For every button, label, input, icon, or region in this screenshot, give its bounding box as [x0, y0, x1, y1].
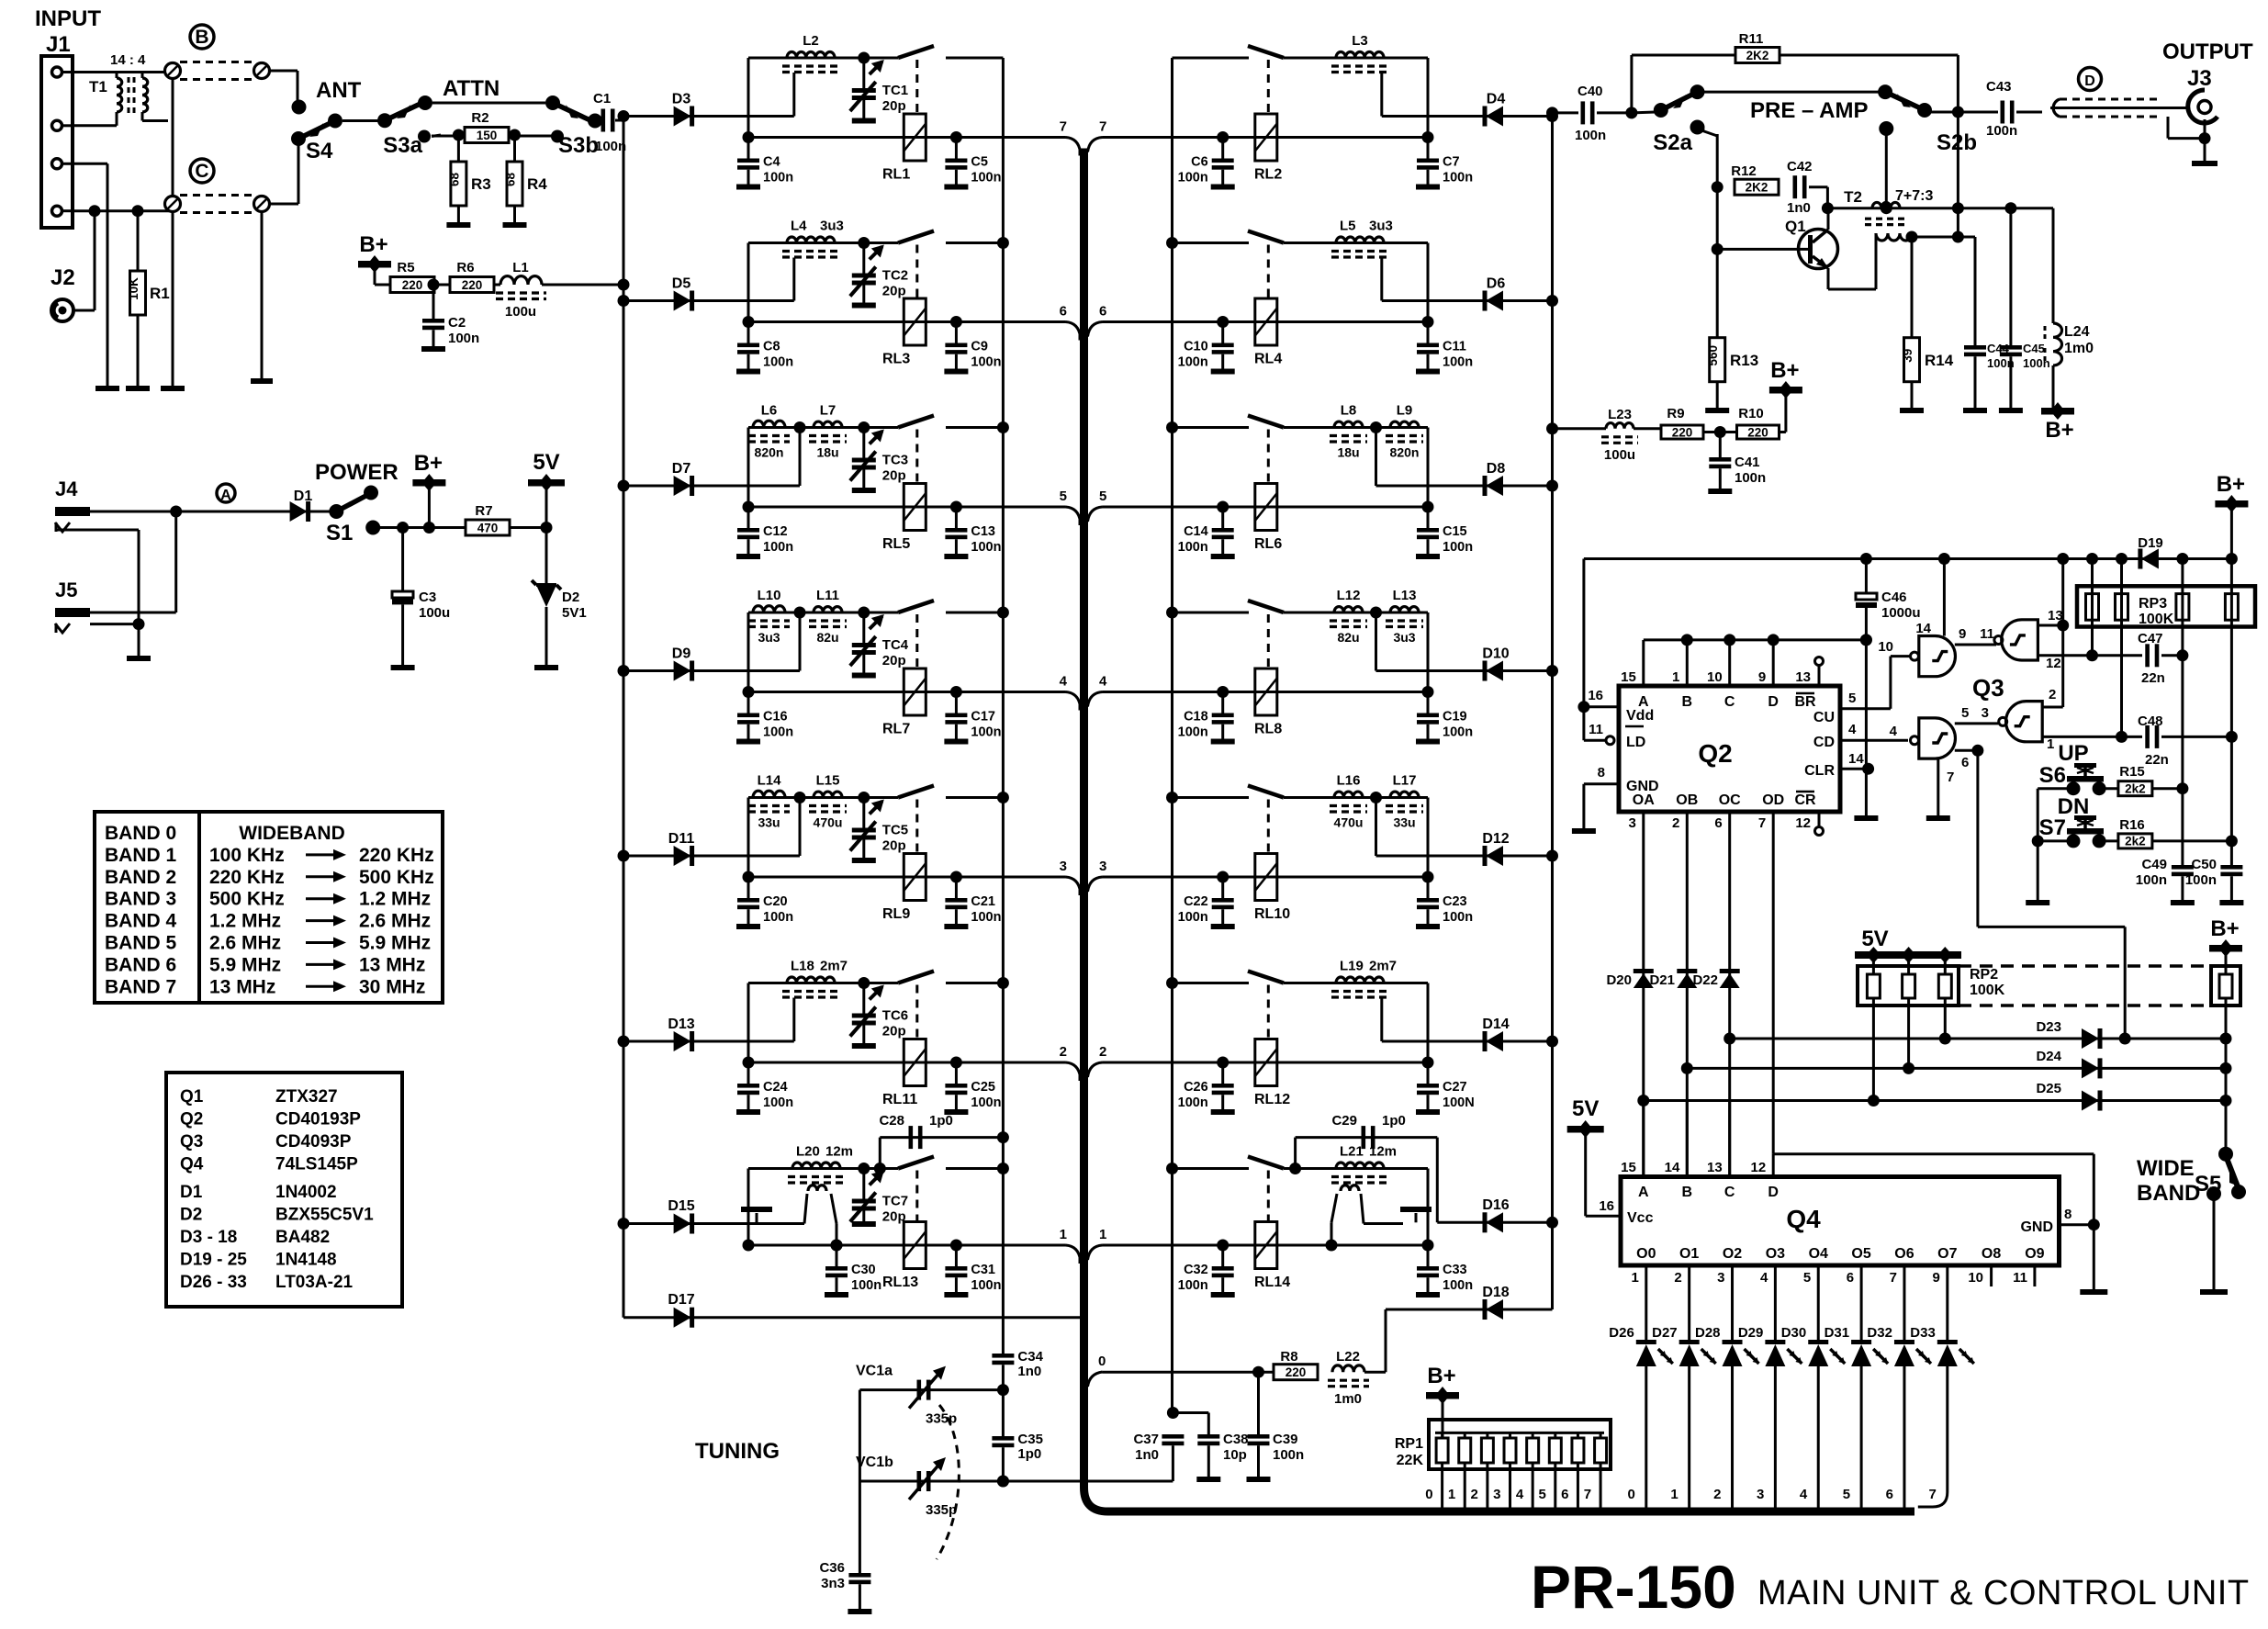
svg-text:C18: C18: [1184, 710, 1208, 725]
svg-text:TC6: TC6: [882, 1008, 908, 1024]
svg-text:820n: 820n: [1390, 445, 1420, 460]
svg-text:C28: C28: [879, 1113, 904, 1129]
svg-text:C46: C46: [1881, 590, 1907, 605]
svg-text:C15: C15: [1443, 524, 1467, 539]
svg-text:2m7: 2m7: [820, 959, 848, 974]
svg-text:LT03A-21: LT03A-21: [275, 1273, 354, 1292]
svg-text:S4: S4: [306, 139, 333, 163]
svg-text:10: 10: [1968, 1270, 1983, 1286]
svg-text:2k2: 2k2: [2125, 782, 2146, 796]
svg-text:CD4093P: CD4093P: [275, 1132, 352, 1152]
svg-text:T2: T2: [1844, 188, 1862, 206]
svg-text:C5: C5: [971, 155, 988, 170]
svg-text:5: 5: [1843, 1487, 1850, 1502]
svg-text:L10: L10: [758, 588, 781, 603]
svg-text:7: 7: [1584, 1487, 1591, 1502]
svg-text:R13: R13: [1730, 352, 1758, 369]
svg-text:D31: D31: [1825, 1325, 1850, 1341]
svg-text:C45: C45: [2023, 342, 2045, 355]
svg-text:RL13: RL13: [882, 1275, 918, 1290]
svg-text:BAND 4: BAND 4: [105, 911, 176, 932]
svg-text:OD: OD: [1762, 792, 1784, 808]
svg-text:O9: O9: [2025, 1246, 2044, 1262]
svg-text:2: 2: [1471, 1487, 1478, 1502]
svg-text:B: B: [195, 27, 208, 48]
svg-text:D28: D28: [1695, 1325, 1721, 1341]
svg-text:470u: 470u: [814, 815, 843, 830]
svg-text:D27: D27: [1652, 1325, 1678, 1341]
svg-text:4: 4: [1848, 722, 1857, 737]
svg-text:1m0: 1m0: [1334, 1391, 1362, 1407]
svg-text:1m0: 1m0: [2064, 341, 2094, 356]
svg-text:D6: D6: [1487, 276, 1506, 292]
svg-text:100n: 100n: [1178, 171, 1208, 185]
svg-text:7+7:3: 7+7:3: [1895, 188, 1933, 204]
svg-text:WIDEBAND: WIDEBAND: [239, 823, 345, 844]
svg-text:12: 12: [1795, 815, 1811, 831]
svg-text:12m: 12m: [825, 1144, 853, 1160]
svg-text:100n: 100n: [971, 540, 1001, 555]
svg-text:LD: LD: [1626, 735, 1645, 750]
svg-text:RL7: RL7: [882, 722, 910, 737]
svg-text:S3b: S3b: [558, 133, 599, 158]
svg-text:100 KHz: 100 KHz: [209, 845, 285, 866]
svg-text:Q3: Q3: [1972, 674, 2004, 702]
svg-text:Vdd: Vdd: [1626, 708, 1654, 724]
svg-text:100n: 100n: [595, 139, 626, 154]
svg-text:S1: S1: [326, 521, 353, 545]
svg-text:R14: R14: [1925, 352, 1954, 369]
svg-text:6: 6: [1099, 304, 1106, 320]
svg-text:5.9 MHz: 5.9 MHz: [359, 933, 431, 954]
svg-text:L1: L1: [512, 260, 529, 275]
svg-text:OA: OA: [1633, 792, 1655, 808]
svg-text:O2: O2: [1723, 1246, 1742, 1262]
svg-text:100n: 100n: [763, 910, 793, 925]
svg-text:1: 1: [1060, 1227, 1067, 1242]
svg-text:1n0: 1n0: [1787, 200, 1811, 216]
svg-text:2: 2: [1060, 1044, 1067, 1060]
svg-text:C34: C34: [1017, 1349, 1043, 1365]
svg-text:20p: 20p: [882, 98, 906, 114]
svg-text:2: 2: [1674, 1270, 1681, 1286]
svg-text:D5: D5: [672, 276, 691, 292]
svg-text:TUNING: TUNING: [695, 1439, 780, 1464]
svg-text:100n: 100n: [851, 1278, 881, 1293]
svg-text:2: 2: [2049, 687, 2056, 702]
svg-text:J2: J2: [51, 265, 75, 290]
svg-text:BAND: BAND: [2137, 1181, 2200, 1206]
svg-text:R8: R8: [1280, 1349, 1297, 1365]
svg-text:D14: D14: [1482, 1017, 1509, 1032]
svg-text:VC1a: VC1a: [856, 1364, 893, 1379]
svg-text:14: 14: [1665, 1160, 1680, 1175]
svg-text:C: C: [1724, 1185, 1735, 1200]
svg-text:14 : 4: 14 : 4: [110, 52, 146, 68]
svg-text:2.6 MHz: 2.6 MHz: [359, 911, 431, 932]
svg-text:100n: 100n: [1443, 725, 1473, 740]
svg-text:D13: D13: [668, 1017, 694, 1032]
svg-text:J3: J3: [2187, 66, 2212, 91]
svg-text:2K2: 2K2: [1746, 181, 1768, 195]
svg-text:BZX55C5V1: BZX55C5V1: [275, 1206, 374, 1225]
svg-text:10p: 10p: [1223, 1447, 1247, 1463]
svg-text:100n: 100n: [1178, 540, 1208, 555]
svg-text:100n: 100n: [1443, 910, 1473, 925]
svg-text:POWER: POWER: [315, 460, 399, 485]
svg-text:C31: C31: [971, 1263, 995, 1277]
svg-text:RP1: RP1: [1395, 1436, 1423, 1452]
svg-text:RP2: RP2: [1970, 967, 1998, 983]
svg-text:9: 9: [1959, 626, 1966, 642]
svg-text:J5: J5: [55, 579, 77, 601]
svg-text:5V1: 5V1: [562, 605, 587, 621]
svg-text:C3: C3: [419, 590, 436, 605]
svg-text:B+: B+: [1770, 358, 1799, 383]
svg-text:3u3: 3u3: [1393, 630, 1415, 645]
svg-text:100u: 100u: [505, 304, 536, 320]
svg-text:BAND 0: BAND 0: [105, 823, 176, 844]
svg-text:1p0: 1p0: [1382, 1113, 1406, 1129]
svg-text:4: 4: [1060, 674, 1068, 690]
svg-text:C27: C27: [1443, 1080, 1467, 1095]
svg-text:D4: D4: [1487, 92, 1506, 107]
svg-text:C7: C7: [1443, 155, 1460, 170]
svg-text:13: 13: [1707, 1160, 1723, 1175]
svg-text:100n: 100n: [1443, 355, 1473, 370]
svg-text:18u: 18u: [816, 445, 838, 460]
svg-text:7: 7: [1890, 1270, 1897, 1286]
svg-text:S5: S5: [2195, 1172, 2221, 1196]
svg-text:220 KHz: 220 KHz: [209, 867, 285, 888]
svg-text:PR-150: PR-150: [1531, 1553, 1736, 1621]
svg-text:100K: 100K: [2139, 612, 2174, 627]
svg-text:100n: 100n: [763, 171, 793, 185]
svg-text:TC7: TC7: [882, 1194, 908, 1209]
svg-text:D15: D15: [668, 1198, 694, 1214]
svg-text:L6: L6: [761, 403, 778, 419]
svg-text:33u: 33u: [1393, 815, 1415, 830]
svg-text:6: 6: [1961, 755, 1969, 770]
svg-text:Q4: Q4: [180, 1155, 204, 1174]
svg-text:100n: 100n: [1575, 128, 1606, 143]
svg-text:7: 7: [1947, 770, 1954, 785]
svg-text:D10: D10: [1482, 646, 1509, 662]
svg-text:7: 7: [1060, 119, 1067, 135]
svg-text:S3a: S3a: [383, 133, 422, 158]
svg-text:3u3: 3u3: [820, 219, 844, 234]
svg-text:12: 12: [1751, 1160, 1767, 1175]
svg-text:100n: 100n: [1178, 910, 1208, 925]
svg-text:D7: D7: [672, 461, 691, 477]
svg-text:7: 7: [1758, 815, 1766, 831]
svg-text:RL10: RL10: [1254, 906, 1290, 922]
svg-text:L22: L22: [1336, 1349, 1360, 1365]
svg-text:BAND 2: BAND 2: [105, 867, 176, 888]
svg-text:D1: D1: [294, 489, 313, 504]
svg-text:Q4: Q4: [1786, 1205, 1821, 1233]
svg-text:5.9 MHz: 5.9 MHz: [209, 954, 281, 975]
svg-text:11: 11: [2013, 1270, 2027, 1286]
svg-text:RL1: RL1: [882, 167, 910, 183]
svg-text:335p: 335p: [926, 1502, 957, 1518]
svg-text:1000u: 1000u: [1881, 605, 1921, 621]
svg-text:5: 5: [1538, 1487, 1545, 1502]
svg-text:10: 10: [1878, 639, 1893, 655]
svg-text:470: 470: [477, 521, 499, 534]
svg-text:2K2: 2K2: [1746, 49, 1769, 62]
svg-text:A: A: [220, 488, 231, 503]
svg-text:7: 7: [1099, 119, 1106, 135]
svg-text:C17: C17: [971, 710, 995, 725]
svg-text:D3: D3: [672, 92, 691, 107]
svg-text:D9: D9: [672, 646, 691, 662]
svg-text:82u: 82u: [1337, 630, 1359, 645]
svg-text:220: 220: [1286, 1365, 1307, 1379]
svg-text:O6: O6: [1894, 1246, 1914, 1262]
svg-text:CLR: CLR: [1804, 763, 1835, 779]
svg-text:J1: J1: [46, 32, 71, 57]
svg-text:100n: 100n: [763, 355, 793, 370]
svg-text:RL14: RL14: [1254, 1275, 1290, 1290]
svg-text:L20: L20: [796, 1144, 820, 1160]
svg-text:L4: L4: [791, 219, 807, 234]
svg-text:100n: 100n: [1178, 355, 1208, 370]
svg-text:100u: 100u: [1604, 447, 1635, 463]
svg-text:C37: C37: [1133, 1432, 1159, 1447]
svg-text:BAND 1: BAND 1: [105, 845, 176, 866]
svg-text:1n0: 1n0: [1017, 1364, 1041, 1379]
svg-text:MAIN UNIT & CONTROL UNIT: MAIN UNIT & CONTROL UNIT: [1757, 1574, 2250, 1612]
svg-text:C: C: [195, 161, 208, 182]
svg-text:6: 6: [1886, 1487, 1893, 1502]
svg-text:O3: O3: [1766, 1246, 1785, 1262]
svg-text:C38: C38: [1223, 1432, 1249, 1447]
svg-text:RL5: RL5: [882, 536, 910, 552]
svg-text:D11: D11: [668, 831, 695, 847]
svg-text:O1: O1: [1679, 1246, 1699, 1262]
svg-text:2: 2: [1672, 815, 1679, 831]
svg-text:2k2: 2k2: [2125, 835, 2146, 848]
svg-text:C48: C48: [2138, 713, 2163, 729]
svg-text:220 KHz: 220 KHz: [359, 845, 434, 866]
svg-text:D18: D18: [1482, 1285, 1509, 1300]
svg-text:220: 220: [1747, 425, 1768, 439]
svg-text:5: 5: [1099, 489, 1106, 504]
svg-text:C42: C42: [1787, 159, 1813, 174]
svg-text:33u: 33u: [758, 815, 780, 830]
svg-text:2m7: 2m7: [1369, 959, 1397, 974]
svg-text:B+: B+: [2210, 916, 2239, 941]
svg-text:C26: C26: [1184, 1080, 1208, 1095]
svg-text:3: 3: [1982, 705, 1989, 721]
svg-text:20p: 20p: [882, 284, 906, 299]
svg-text:C10: C10: [1184, 340, 1208, 354]
svg-text:D24: D24: [2036, 1049, 2061, 1064]
svg-text:D22: D22: [1692, 972, 1718, 988]
svg-text:L19: L19: [1340, 959, 1364, 974]
svg-text:WIDE: WIDE: [2137, 1156, 2195, 1181]
svg-text:100n: 100n: [763, 1095, 793, 1110]
svg-text:RL6: RL6: [1254, 536, 1282, 552]
svg-text:BAND 5: BAND 5: [105, 933, 176, 954]
svg-text:L18: L18: [791, 959, 814, 974]
svg-text:11: 11: [1980, 626, 1994, 642]
svg-text:ANT: ANT: [316, 78, 362, 103]
svg-text:22n: 22n: [2145, 752, 2169, 768]
svg-text:D: D: [2084, 73, 2095, 89]
svg-text:2: 2: [1099, 1044, 1106, 1060]
svg-text:D: D: [1768, 1185, 1779, 1200]
svg-text:L12: L12: [1337, 588, 1361, 603]
svg-text:18u: 18u: [1337, 445, 1359, 460]
svg-text:L9: L9: [1397, 403, 1413, 419]
svg-text:11: 11: [1589, 722, 1603, 737]
svg-text:5: 5: [1848, 691, 1856, 706]
svg-text:PRE – AMP: PRE – AMP: [1750, 98, 1868, 123]
svg-text:100n: 100n: [1178, 725, 1208, 740]
svg-text:D29: D29: [1738, 1325, 1764, 1341]
svg-text:L2: L2: [803, 33, 819, 49]
svg-text:D32: D32: [1867, 1325, 1892, 1341]
svg-text:82u: 82u: [816, 630, 838, 645]
svg-text:UP: UP: [2058, 741, 2088, 766]
svg-text:100n: 100n: [448, 331, 479, 346]
svg-text:CD40193P: CD40193P: [275, 1110, 361, 1129]
svg-text:D26: D26: [1609, 1325, 1634, 1341]
svg-text:D17: D17: [668, 1292, 694, 1308]
svg-text:B+: B+: [2045, 418, 2073, 443]
svg-text:30 MHz: 30 MHz: [359, 976, 425, 997]
svg-text:15: 15: [1621, 669, 1636, 685]
svg-text:1N4148: 1N4148: [275, 1251, 337, 1270]
svg-text:22K: 22K: [1397, 1453, 1424, 1468]
svg-text:C14: C14: [1184, 524, 1208, 539]
svg-text:5: 5: [1060, 489, 1067, 504]
svg-text:L14: L14: [758, 773, 782, 789]
svg-text:R2: R2: [471, 110, 488, 126]
svg-text:R9: R9: [1667, 406, 1684, 421]
svg-text:16: 16: [1599, 1198, 1614, 1214]
svg-text:J4: J4: [55, 477, 78, 500]
svg-text:B+: B+: [359, 232, 387, 257]
svg-text:L17: L17: [1393, 773, 1417, 789]
svg-text:14: 14: [1848, 751, 1864, 767]
svg-text:T1: T1: [89, 78, 107, 95]
svg-text:TC3: TC3: [882, 453, 908, 468]
svg-text:C9: C9: [971, 340, 988, 354]
svg-text:3: 3: [1099, 859, 1106, 874]
svg-text:335p: 335p: [926, 1411, 957, 1427]
svg-text:D19: D19: [2138, 535, 2163, 551]
svg-text:Q1: Q1: [180, 1087, 204, 1107]
svg-text:1p0: 1p0: [1017, 1446, 1041, 1462]
svg-text:C: C: [1724, 694, 1735, 710]
svg-text:100n: 100n: [1273, 1447, 1304, 1463]
svg-text:Q2: Q2: [1698, 739, 1732, 768]
svg-text:100u: 100u: [419, 605, 450, 621]
svg-text:R1: R1: [150, 285, 170, 302]
svg-text:D21: D21: [1649, 972, 1675, 988]
svg-text:RL9: RL9: [882, 906, 910, 922]
svg-text:D19 - 25: D19 - 25: [180, 1251, 247, 1270]
svg-text:L23: L23: [1608, 407, 1632, 422]
svg-text:20p: 20p: [882, 468, 906, 484]
svg-text:TC2: TC2: [882, 268, 908, 284]
svg-text:13: 13: [1795, 669, 1811, 685]
svg-text:L21: L21: [1340, 1144, 1364, 1160]
svg-text:1: 1: [1670, 1487, 1678, 1502]
svg-text:D30: D30: [1781, 1325, 1807, 1341]
svg-text:22n: 22n: [2141, 670, 2165, 686]
svg-text:D23: D23: [2036, 1019, 2061, 1035]
svg-text:C20: C20: [763, 894, 788, 909]
svg-text:BR: BR: [1794, 694, 1816, 710]
svg-text:S6: S6: [2039, 763, 2066, 788]
svg-text:6: 6: [1561, 1487, 1568, 1502]
svg-text:BAND 3: BAND 3: [105, 889, 176, 910]
svg-text:C36: C36: [819, 1560, 845, 1576]
svg-text:100n: 100n: [1443, 540, 1473, 555]
svg-text:1: 1: [2047, 736, 2054, 752]
svg-text:L16: L16: [1337, 773, 1361, 789]
svg-text:Q2: Q2: [180, 1110, 203, 1129]
svg-text:D2: D2: [562, 590, 579, 605]
svg-text:C35: C35: [1017, 1432, 1043, 1447]
svg-text:100n: 100n: [971, 725, 1001, 740]
svg-text:D3 - 18: D3 - 18: [180, 1228, 237, 1247]
svg-text:3: 3: [1493, 1487, 1500, 1502]
svg-text:L15: L15: [816, 773, 840, 789]
svg-text:20p: 20p: [882, 653, 906, 668]
svg-text:D: D: [1768, 694, 1779, 710]
svg-text:L8: L8: [1341, 403, 1357, 419]
svg-text:0: 0: [1425, 1487, 1432, 1502]
svg-text:TC5: TC5: [882, 823, 908, 838]
svg-text:C8: C8: [763, 340, 780, 354]
svg-text:TC1: TC1: [882, 83, 908, 98]
svg-text:1.2 MHz: 1.2 MHz: [359, 889, 431, 910]
svg-text:220: 220: [402, 278, 423, 292]
svg-text:3: 3: [1757, 1487, 1764, 1502]
svg-text:3u3: 3u3: [1369, 219, 1393, 234]
svg-text:VC1b: VC1b: [856, 1455, 893, 1470]
svg-text:1: 1: [1448, 1487, 1455, 1502]
svg-text:L11: L11: [816, 588, 839, 603]
svg-text:C23: C23: [1443, 894, 1467, 909]
svg-text:CD: CD: [1813, 735, 1835, 750]
svg-text:4: 4: [1890, 724, 1898, 739]
svg-text:C1: C1: [593, 91, 611, 107]
svg-text:100N: 100N: [1443, 1095, 1475, 1110]
svg-text:100n: 100n: [1735, 470, 1766, 486]
svg-text:100n: 100n: [971, 1278, 1001, 1293]
svg-text:B: B: [1682, 694, 1693, 710]
svg-text:C19: C19: [1443, 710, 1467, 725]
svg-text:0: 0: [1098, 1354, 1106, 1369]
svg-text:BAND 6: BAND 6: [105, 954, 176, 975]
svg-text:RL3: RL3: [882, 352, 910, 367]
svg-text:D12: D12: [1482, 831, 1509, 847]
svg-text:5: 5: [1803, 1270, 1811, 1286]
svg-text:RP3: RP3: [2139, 596, 2167, 612]
svg-text:15: 15: [1621, 1160, 1636, 1175]
svg-text:100n: 100n: [763, 540, 793, 555]
svg-text:8: 8: [2064, 1207, 2072, 1222]
svg-text:3: 3: [1717, 1270, 1724, 1286]
svg-text:100n: 100n: [1178, 1278, 1208, 1293]
svg-text:39: 39: [1901, 349, 1914, 363]
